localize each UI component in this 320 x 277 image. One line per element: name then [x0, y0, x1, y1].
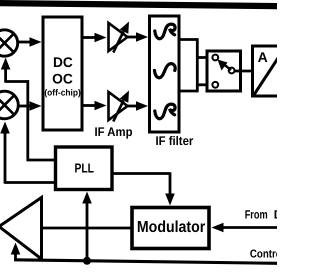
wire modulator to power amp: [43, 227, 132, 230]
modulator block: [132, 208, 209, 249]
wire DC OC to IF amp 1 with arrow: [84, 33, 107, 43]
svg-text:IF Amp: IF Amp: [95, 125, 133, 139]
mixer M2: [0, 91, 18, 119]
filter squiggle 3: [155, 104, 175, 119]
wire IF amp 1 to IF filter with arrow: [128, 32, 149, 42]
svg-text:From: From: [245, 208, 268, 222]
wire stub to switch bottom contact: [197, 83, 212, 86]
svg-text:PLL: PLL: [74, 160, 94, 175]
wire control rail up into PLL bottom with arrow: [82, 192, 92, 261]
svg-text:D: D: [274, 208, 277, 222]
wire IF filter top output: [179, 38, 197, 41]
wire vertical bus to switch: [196, 38, 199, 92]
wire From-D input into modulator with arrow: [212, 223, 278, 233]
wire PLL to modulator (right stub, corner, down arrow): [114, 172, 175, 205]
wire PLL LO to mixer M1 (stub, vertical, jog, arrow): [1, 58, 54, 162]
wire stub to switch top contact: [197, 56, 212, 59]
switch block SW1: [207, 51, 241, 91]
junction dot on rail: [83, 257, 91, 265]
wire gain control up into PA with arrow: [11, 243, 21, 261]
svg-text:A: A: [258, 49, 268, 65]
svg-text:(off-chip): (off-chip): [44, 88, 81, 98]
wire mixer M2 to DC OC with arrow: [18, 101, 42, 111]
svg-text:OC: OC: [52, 71, 73, 87]
svg-text:Control: Control: [250, 249, 277, 261]
wire mixer M1 to DC OC with arrow: [17, 37, 42, 47]
filter squiggle 1: [155, 24, 175, 39]
bottom control rail: [14, 260, 277, 264]
svg-text:IF filter: IF filter: [155, 134, 193, 148]
svg-text:Modulator: Modulator: [137, 219, 205, 236]
top frame border: [0, 0, 280, 9]
PLL block: [56, 147, 113, 190]
wire DC OC to IF amp 2 with arrow: [84, 101, 107, 111]
wire PLL LO to mixer M2 (stub, vertical, arrow): [0, 122, 54, 184]
mixer M1: [0, 30, 18, 56]
IF filter block: [150, 16, 180, 132]
ADC block A: [253, 46, 286, 96]
power amp PA triangle: [0, 198, 42, 260]
IF amp 2 (variable gain amplifier): [109, 91, 130, 122]
wire switch to ADC: [234, 70, 252, 73]
svg-text:DC: DC: [53, 54, 73, 70]
wire IF filter bottom output: [179, 90, 197, 93]
wire IF amp 2 to IF filter with arrow: [128, 101, 149, 111]
DC OC block (off-chip): [43, 17, 82, 130]
IF amp 1 (variable gain amplifier): [109, 22, 130, 53]
filter squiggle 2: [155, 64, 176, 78]
